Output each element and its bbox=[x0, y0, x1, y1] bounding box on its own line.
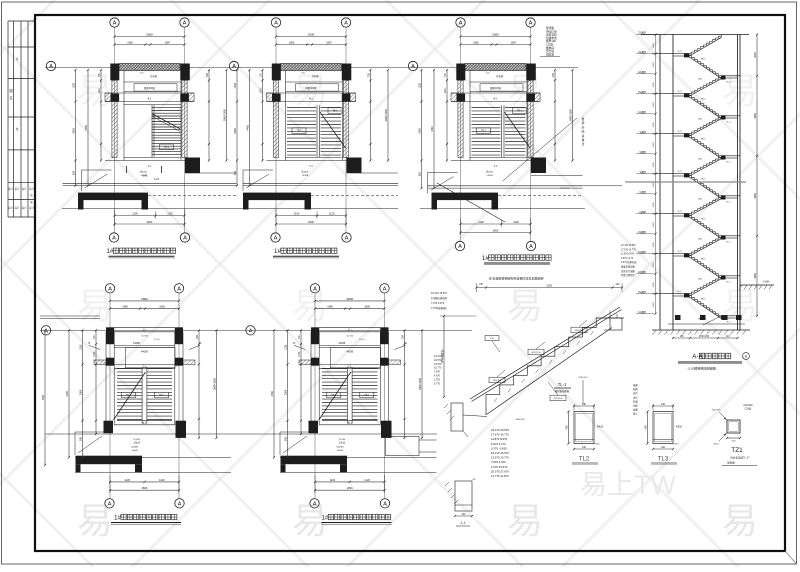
svg-text:19.470: 19.470 bbox=[434, 355, 442, 358]
svg-text:1#: 1# bbox=[482, 255, 490, 262]
plan2 title bbox=[273, 248, 339, 258]
svg-text:2.070(结构面): 2.070(结构面) bbox=[431, 306, 447, 310]
svg-text:A: A bbox=[177, 286, 181, 292]
svg-text:1450: 1450 bbox=[653, 121, 655, 127]
svg-text:TZ1: TZ1 bbox=[731, 447, 743, 454]
svg-text:1687: 1687 bbox=[511, 42, 517, 45]
svg-text:#400B: #400B bbox=[131, 450, 138, 452]
svg-text:A: A bbox=[112, 236, 116, 242]
svg-text:设计: 设计 bbox=[15, 187, 20, 191]
section landing level 5 bbox=[721, 275, 740, 283]
svg-text:1120: 1120 bbox=[513, 220, 519, 224]
long landing line bottom row bbox=[45, 433, 437, 435]
plan5 left dimension chains bbox=[271, 329, 302, 458]
plan4 axis circles top bbox=[105, 284, 183, 499]
section right wall bbox=[737, 35, 739, 331]
plan4 columns row2 with wings bbox=[88, 343, 202, 366]
plan1 right dimension chains bbox=[206, 69, 228, 162]
plan1 axis circles top bbox=[110, 18, 189, 233]
svg-text:A: A bbox=[411, 64, 415, 70]
svg-text:1200: 1200 bbox=[418, 82, 421, 88]
svg-text:明者: 明者 bbox=[633, 399, 638, 403]
svg-text:1687: 1687 bbox=[326, 42, 332, 45]
plan2 top wall hatched band bbox=[281, 64, 342, 71]
plan1 top dimensions bbox=[113, 33, 185, 46]
plan5 floor outline lines bbox=[280, 432, 437, 472]
svg-text:配筋: 配筋 bbox=[633, 387, 638, 391]
plan4 top wall lines bbox=[114, 327, 175, 341]
svg-text:4460: 4460 bbox=[85, 124, 88, 130]
cutting plane leader below plan3 bbox=[437, 183, 505, 222]
svg-text:11.870 8.970: 11.870 8.970 bbox=[621, 254, 635, 256]
plan4 entrance beam bbox=[76, 456, 143, 473]
svg-text:TB-1: TB-1 bbox=[159, 395, 165, 397]
svg-text:A: A bbox=[274, 21, 278, 27]
section title bbox=[678, 353, 749, 371]
svg-text:#400B: #400B bbox=[141, 352, 148, 354]
svg-text:-0.800: -0.800 bbox=[763, 281, 770, 284]
plan1 axis circles bottom bbox=[109, 233, 189, 242]
long corridor base line plan 3 bbox=[420, 207, 585, 209]
plan5 axis circles top bbox=[310, 284, 389, 499]
svg-text:预留400宽: 预留400宽 bbox=[305, 86, 317, 90]
svg-text:#400B: #400B bbox=[346, 352, 353, 354]
svg-text:A: A bbox=[232, 64, 236, 70]
plan2 stair treads bbox=[287, 106, 346, 158]
svg-text:2060: 2060 bbox=[79, 389, 82, 395]
svg-text:C-2X: C-2X bbox=[154, 179, 160, 181]
svg-text:设计: 设计 bbox=[8, 187, 13, 191]
plan5 lower landing bbox=[319, 421, 380, 452]
svg-text:TB-1: TB-1 bbox=[164, 147, 170, 149]
svg-text:#400B: #400B bbox=[133, 343, 140, 345]
svg-text:A: A bbox=[274, 236, 278, 242]
section landing level 1 bbox=[721, 115, 740, 123]
svg-text:1-1: 1-1 bbox=[460, 521, 465, 525]
plan4 stairwell side walls bbox=[106, 332, 183, 425]
section left elevation labels bbox=[636, 31, 654, 314]
TL-1 left notes block bbox=[431, 292, 448, 310]
svg-text:Φ12@100: Φ12@100 bbox=[553, 397, 563, 400]
plan5 stairwell side walls bbox=[311, 332, 389, 425]
plan2 column block lower right bbox=[347, 158, 362, 174]
plan5 title bbox=[321, 514, 391, 524]
TL-1 reinforcement diagonal bbox=[470, 307, 622, 402]
svg-text:2800: 2800 bbox=[347, 486, 353, 490]
svg-text:2960=2380: 2960=2380 bbox=[569, 109, 572, 122]
plan 3 long floor lines extending right bbox=[560, 185, 622, 187]
svg-text:2600: 2600 bbox=[493, 229, 499, 233]
svg-text:7.870 4.970: 7.870 4.970 bbox=[491, 460, 506, 464]
svg-text:500: 500 bbox=[72, 170, 75, 175]
svg-text:400: 400 bbox=[565, 425, 568, 430]
svg-text:TB-1: TB-1 bbox=[331, 395, 337, 397]
detail 1-1 small section bbox=[445, 478, 476, 526]
svg-text:TB-1: TB-1 bbox=[126, 395, 132, 397]
svg-text:2700=200: 2700=200 bbox=[699, 336, 710, 338]
TL3 left vertical notes bbox=[633, 383, 638, 416]
plan1 bottom dimensions bbox=[113, 210, 185, 227]
plan1 upper landing lines bbox=[105, 73, 194, 102]
svg-text:2960=2380: 2960=2380 bbox=[223, 109, 226, 122]
svg-text:2060: 2060 bbox=[284, 389, 287, 395]
plan5 columns row1 bbox=[311, 327, 389, 344]
svg-text:A: A bbox=[249, 328, 253, 334]
svg-text:2960=2380: 2960=2380 bbox=[419, 377, 422, 390]
svg-text:A: A bbox=[383, 286, 387, 292]
plan3 upper landing lines bbox=[451, 73, 540, 102]
svg-text:此图: 此图 bbox=[633, 408, 638, 412]
svg-text:12.550: 12.550 bbox=[338, 439, 345, 441]
svg-text:4.970: 4.970 bbox=[434, 375, 441, 378]
plan5 column block lower left bbox=[309, 421, 319, 434]
svg-text:2.070: 2.070 bbox=[434, 378, 441, 381]
plan2 upper landing lines bbox=[267, 73, 356, 102]
svg-text:240: 240 bbox=[661, 403, 666, 406]
plan5 columns row2 with wings bbox=[293, 343, 408, 366]
section floor stub level 0 bbox=[652, 51, 690, 57]
svg-text:4460: 4460 bbox=[271, 391, 274, 397]
svg-text:Φ8@200: Φ8@200 bbox=[579, 376, 589, 379]
svg-text:TL3: TL3 bbox=[658, 457, 669, 463]
svg-text:A: A bbox=[183, 236, 187, 242]
svg-text:墙: 墙 bbox=[582, 134, 585, 138]
svg-text:2600: 2600 bbox=[308, 220, 314, 224]
plan2 bottom dimensions bbox=[275, 210, 347, 227]
plan4 bottom dimensions bbox=[109, 475, 180, 493]
plan3 lower landing bbox=[451, 158, 540, 178]
svg-text:B-1: B-1 bbox=[148, 98, 152, 101]
svg-text:Φ12@150: Φ12@150 bbox=[531, 351, 541, 354]
svg-text:2060: 2060 bbox=[72, 128, 75, 134]
notes column two-col block bbox=[491, 428, 509, 478]
svg-text:B-1: B-1 bbox=[348, 422, 352, 425]
section landing level 0 bbox=[721, 75, 740, 83]
plan2 axis circles top bbox=[271, 18, 350, 233]
plan1 left dimension chains bbox=[72, 69, 102, 187]
svg-text:23.470 20.570: 23.470 20.570 bbox=[621, 245, 636, 247]
svg-text:A: A bbox=[108, 286, 112, 292]
svg-text:设计: 设计 bbox=[8, 206, 13, 210]
plan5 stair treads bbox=[319, 367, 378, 424]
section floor stub level 4 bbox=[652, 211, 690, 217]
svg-text:TB-1: TB-1 bbox=[333, 111, 339, 113]
section left dimension chain bbox=[655, 35, 657, 314]
plan1 stairwell walls bbox=[105, 71, 194, 161]
svg-text:6.070 3.170: 6.070 3.170 bbox=[621, 258, 634, 260]
plan3 bottom dimensions bbox=[459, 218, 531, 235]
svg-text:#400B3: #400B3 bbox=[131, 447, 139, 449]
svg-text:17.670 14.770: 17.670 14.770 bbox=[491, 433, 509, 437]
plan5 roof slab outline right bbox=[386, 437, 437, 456]
plan3 top wall hatched band bbox=[465, 64, 526, 71]
svg-text:A: A bbox=[345, 236, 349, 242]
svg-text:名: 名 bbox=[9, 95, 12, 100]
plan5 bottom dimensions bbox=[314, 475, 386, 493]
svg-text:6.570: 6.570 bbox=[640, 150, 647, 154]
horizontal axis line A bottom row bbox=[40, 329, 472, 331]
svg-text:16.570: 16.570 bbox=[434, 359, 442, 362]
svg-text:2960=2380: 2960=2380 bbox=[213, 377, 216, 390]
TL-1 step tick marks bbox=[494, 331, 594, 402]
svg-text:2060: 2060 bbox=[234, 128, 237, 134]
svg-text:1120: 1120 bbox=[330, 478, 336, 482]
svg-text:2600: 2600 bbox=[308, 33, 315, 37]
plan1 column left bbox=[110, 64, 119, 81]
svg-text:20.570 17.670: 20.570 17.670 bbox=[491, 469, 509, 473]
svg-text:2.070 23.470: 2.070 23.470 bbox=[491, 465, 508, 469]
section floor stub level 2 bbox=[652, 131, 690, 137]
plan5 right dimension chains bbox=[401, 329, 423, 439]
svg-text:Φ8@200: Φ8@200 bbox=[493, 379, 502, 382]
section landing level 6 bbox=[721, 315, 740, 323]
svg-text:易: 易 bbox=[292, 70, 328, 111]
plan2 right dimension chains bbox=[367, 69, 389, 162]
section landing level 4 bbox=[721, 235, 740, 243]
section landing level 2 bbox=[721, 155, 740, 163]
plan3 axis circles bottom bbox=[455, 241, 535, 250]
svg-text:C25砼: C25砼 bbox=[745, 407, 752, 411]
axis circle A left plan3 bbox=[408, 61, 417, 70]
svg-text:B-1: B-1 bbox=[143, 422, 147, 425]
plan4 left dimension chains bbox=[66, 329, 97, 458]
svg-text:2960=2380: 2960=2380 bbox=[385, 109, 388, 122]
TL-1 bottom landing and beam bbox=[444, 403, 487, 437]
plan1 floor outline lines bbox=[63, 170, 237, 191]
plan2 top dimensions bbox=[275, 33, 347, 46]
svg-text:19.470 16.570: 19.470 16.570 bbox=[491, 451, 509, 455]
svg-text:1100: 1100 bbox=[478, 220, 484, 224]
svg-text:#400B: #400B bbox=[302, 175, 309, 177]
section stair zigzag flights bbox=[689, 35, 722, 326]
svg-text:#400B: #400B bbox=[140, 175, 147, 177]
section base footing bbox=[652, 324, 750, 335]
plan3 column block lower right bbox=[531, 158, 546, 174]
svg-text:19.470 16.570: 19.470 16.570 bbox=[431, 292, 448, 295]
svg-text:1600: 1600 bbox=[364, 306, 370, 309]
TZ1 column detail bbox=[712, 404, 757, 466]
svg-text:设计: 设计 bbox=[22, 187, 27, 191]
svg-text:(1:50楼梯梯段配筋图): (1:50楼梯梯段配筋图) bbox=[688, 366, 717, 371]
svg-text:A: A bbox=[313, 501, 317, 507]
svg-text:1#: 1# bbox=[274, 248, 282, 255]
svg-text:2800: 2800 bbox=[346, 297, 353, 301]
axis circle A left plan4 bbox=[41, 326, 50, 335]
axis circle A left plan2 bbox=[229, 61, 238, 70]
svg-text:1120: 1120 bbox=[167, 212, 173, 216]
section bottom beams row bbox=[675, 315, 742, 320]
svg-text:17.670 14.770: 17.670 14.770 bbox=[621, 249, 636, 251]
plan1 column right bbox=[180, 64, 190, 81]
plan5 axis circles bottom bbox=[310, 499, 390, 508]
svg-text:1450: 1450 bbox=[653, 61, 655, 67]
plan4 lower landing bbox=[114, 421, 175, 452]
svg-text:梯: 梯 bbox=[582, 121, 585, 125]
plan1 wall blocks mid bbox=[111, 94, 120, 102]
svg-text:TB-1: TB-1 bbox=[481, 131, 487, 133]
svg-text:4460: 4460 bbox=[246, 124, 249, 130]
plan3 left dimension chains bbox=[418, 69, 448, 189]
svg-text:易: 易 bbox=[507, 70, 543, 111]
section ground line right bbox=[739, 281, 774, 290]
svg-text:1100: 1100 bbox=[294, 212, 300, 216]
svg-text:1450: 1450 bbox=[653, 201, 655, 207]
svg-text:700: 700 bbox=[196, 335, 199, 340]
svg-text:1450: 1450 bbox=[653, 101, 655, 107]
svg-text:易: 易 bbox=[507, 285, 543, 326]
plan 3 top right note block bbox=[540, 26, 560, 57]
svg-text:设计: 设计 bbox=[15, 206, 20, 210]
TL-1 top landing and beam hook bbox=[604, 311, 624, 330]
svg-text:设计: 设计 bbox=[29, 206, 34, 210]
plan5 top wall lines bbox=[319, 327, 380, 341]
plan1 lower landing bbox=[105, 158, 194, 178]
plan4 top dimensions bbox=[109, 297, 180, 310]
svg-text:TB-1: TB-1 bbox=[517, 111, 523, 113]
TL-1 label bbox=[554, 382, 571, 393]
svg-text:13.670: 13.670 bbox=[434, 363, 442, 366]
plan4 title bbox=[111, 514, 181, 524]
svg-text:1450: 1450 bbox=[653, 81, 655, 87]
svg-text:500: 500 bbox=[79, 436, 82, 441]
svg-text:1#: 1# bbox=[321, 515, 329, 522]
plan5 top dimensions bbox=[314, 297, 386, 310]
svg-text:TB-1: TB-1 bbox=[297, 131, 303, 133]
svg-text:B-1: B-1 bbox=[309, 98, 313, 101]
svg-text:1450: 1450 bbox=[653, 42, 655, 48]
svg-text:TL-1a: TL-1a bbox=[154, 339, 160, 341]
svg-text:易上TW: 易上TW bbox=[580, 470, 676, 500]
plan2 column right bbox=[342, 64, 352, 81]
plan4 upper landing lines bbox=[114, 343, 175, 368]
svg-text:10.770: 10.770 bbox=[434, 367, 442, 370]
long corridor base line plans 1-2 bbox=[62, 207, 398, 209]
title block table bbox=[8, 21, 35, 217]
svg-text:易: 易 bbox=[722, 500, 758, 541]
svg-text:500: 500 bbox=[234, 170, 237, 175]
svg-text:A: A bbox=[49, 64, 53, 70]
svg-text:2800: 2800 bbox=[141, 297, 148, 301]
svg-text:均按: 均按 bbox=[633, 404, 638, 408]
svg-text:A: A bbox=[344, 21, 348, 27]
svg-text:700: 700 bbox=[401, 335, 404, 340]
svg-text:2Φ16: 2Φ16 bbox=[673, 443, 679, 446]
svg-text:1450: 1450 bbox=[653, 221, 655, 227]
TL-1 top dimension bbox=[477, 287, 623, 289]
plan3 column left bbox=[456, 64, 465, 81]
svg-text:1687: 1687 bbox=[165, 42, 171, 45]
svg-text:梯梁: 梯梁 bbox=[633, 383, 638, 387]
section floor stub level 1 bbox=[652, 91, 690, 97]
svg-text:1100: 1100 bbox=[132, 212, 138, 216]
svg-text:13.670 10.770: 13.670 10.770 bbox=[491, 456, 509, 460]
svg-text:3150: 3150 bbox=[546, 284, 552, 288]
plan3 stairwell walls bbox=[451, 71, 540, 161]
svg-text:700: 700 bbox=[206, 73, 209, 78]
svg-text:5800: 5800 bbox=[754, 272, 757, 278]
gray corridor line crossing section bbox=[625, 181, 746, 183]
TL-1 left stacked numbers column bbox=[434, 355, 442, 385]
svg-text:1330: 1330 bbox=[94, 351, 96, 357]
TL2 leader line above bbox=[582, 380, 584, 404]
svg-text:1450: 1450 bbox=[653, 141, 655, 147]
svg-text:1120: 1120 bbox=[159, 478, 165, 482]
svg-text:做: 做 bbox=[582, 138, 585, 142]
svg-text:12.550: 12.550 bbox=[133, 439, 140, 441]
svg-text:2060: 2060 bbox=[418, 128, 421, 134]
A-A section bbox=[621, 31, 774, 371]
plan3 title bbox=[482, 255, 551, 265]
svg-text:1200: 1200 bbox=[445, 88, 447, 94]
TL-1 rebar labels bbox=[485, 320, 587, 421]
plan2 left dimension chains bbox=[234, 69, 264, 187]
svg-text:7.870 4.970: 7.870 4.970 bbox=[431, 302, 445, 305]
plan3 wall blocks mid bbox=[457, 94, 466, 102]
svg-text:2600: 2600 bbox=[146, 33, 153, 37]
plan4 floor outline lines bbox=[75, 432, 231, 472]
plan4 columns row1 bbox=[106, 327, 183, 344]
plan2 entrance beam bbox=[243, 193, 398, 210]
plan1 entrance beam bbox=[78, 193, 237, 210]
svg-text:设计: 设计 bbox=[29, 187, 34, 191]
svg-text:500: 500 bbox=[418, 172, 421, 177]
svg-text:1330: 1330 bbox=[299, 351, 301, 357]
plan3 entrance beam bbox=[432, 193, 583, 210]
plan 3 vertical note text bbox=[582, 117, 585, 146]
svg-text:4460: 4460 bbox=[431, 126, 434, 132]
TL-1 stepped flight outline bbox=[486, 318, 610, 404]
svg-text:5800: 5800 bbox=[754, 112, 757, 118]
svg-text:A: A bbox=[178, 501, 182, 507]
plan3 stair treads bbox=[472, 106, 531, 158]
svg-text:见结施: 见结施 bbox=[546, 52, 554, 56]
horizontal axis line A top row bbox=[45, 67, 578, 69]
plan 4 far left dimension bbox=[44, 330, 46, 465]
svg-text:15.750: 15.750 bbox=[141, 336, 148, 338]
plan4 right dimension chains bbox=[196, 329, 218, 439]
svg-text:6.070 3.170: 6.070 3.170 bbox=[491, 442, 506, 446]
svg-text:2Φ16: 2Φ16 bbox=[594, 443, 600, 446]
svg-text:1660: 1660 bbox=[473, 42, 479, 45]
svg-text:0.270 -0.630: 0.270 -0.630 bbox=[491, 446, 507, 450]
plan2 wall blocks mid bbox=[272, 94, 281, 102]
svg-text:240: 240 bbox=[582, 403, 587, 406]
svg-text:4460: 4460 bbox=[66, 391, 69, 397]
plan2 stairwell walls bbox=[267, 71, 356, 161]
svg-text:240: 240 bbox=[582, 446, 587, 449]
svg-text:B-1: B-1 bbox=[494, 98, 498, 101]
section landing level 3 bbox=[721, 195, 740, 203]
svg-text:梯段板配筋图: 梯段板配筋图 bbox=[555, 389, 570, 393]
svg-text:易: 易 bbox=[292, 285, 328, 326]
section top slab line bbox=[641, 34, 749, 36]
svg-text:易: 易 bbox=[77, 70, 113, 111]
svg-text:A: A bbox=[529, 21, 533, 27]
svg-text:2600: 2600 bbox=[492, 33, 499, 37]
svg-text:700: 700 bbox=[552, 73, 555, 78]
svg-text:易: 易 bbox=[507, 500, 543, 541]
svg-text:#400B3: #400B3 bbox=[336, 447, 344, 449]
plan1 column block lower right bbox=[185, 158, 200, 174]
svg-text:楼: 楼 bbox=[582, 117, 585, 121]
svg-text:1200: 1200 bbox=[72, 82, 75, 88]
svg-text:1330: 1330 bbox=[79, 344, 82, 350]
svg-text:TB-1: TB-1 bbox=[364, 395, 370, 397]
plan3 top dimensions bbox=[459, 33, 531, 46]
section bottom dimension bbox=[673, 337, 738, 339]
plan4 axis circles bottom bbox=[105, 499, 184, 508]
svg-text:预留400宽: 预留400宽 bbox=[490, 86, 502, 90]
